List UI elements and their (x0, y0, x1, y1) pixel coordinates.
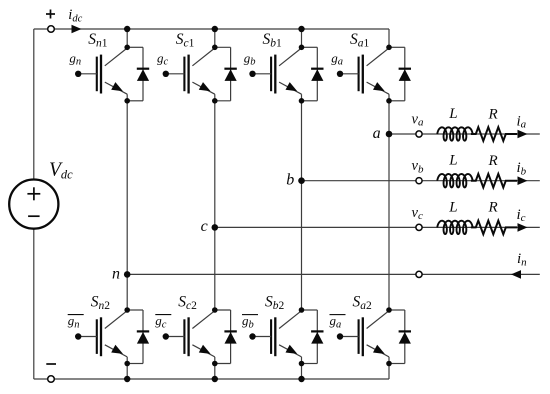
svg-text:R: R (488, 153, 498, 169)
svg-text:a: a (373, 125, 381, 142)
svg-text:R: R (488, 200, 498, 216)
svg-text:L: L (448, 106, 457, 122)
svg-text:b: b (286, 172, 294, 189)
svg-text:n: n (112, 265, 120, 282)
svg-text:R: R (488, 106, 498, 122)
svg-text:L: L (448, 199, 457, 215)
svg-text:L: L (448, 153, 457, 169)
svg-text:c: c (201, 218, 208, 235)
